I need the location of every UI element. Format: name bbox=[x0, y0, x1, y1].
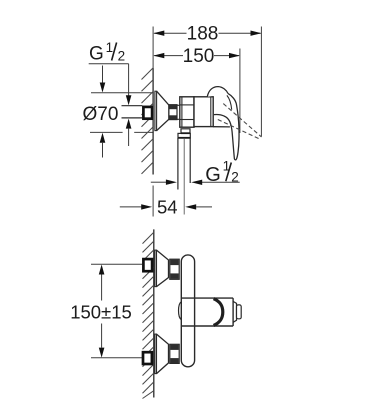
svg-text:Ø70: Ø70 bbox=[83, 104, 119, 125]
54 right arrow bbox=[185, 204, 196, 209]
top escutcheon cone (bottom view) bbox=[157, 250, 169, 287]
Ø70 top extension line bbox=[91, 92, 154, 94]
outlet centre line bbox=[183, 138, 185, 214]
lever handle (top view) bbox=[214, 94, 239, 160]
lever swung position (dashed) lower bbox=[218, 120, 259, 139]
svg-text:2: 2 bbox=[118, 48, 126, 63]
top wall union square (bottom view) bbox=[143, 259, 152, 271]
escutcheon rim (top view) bbox=[155, 91, 157, 130]
cartridge dome bbox=[207, 87, 228, 97]
Ø70 lower arrow (up) bbox=[100, 133, 106, 143]
mixer body main block (top view) bbox=[194, 97, 213, 127]
extension line right of 188 bbox=[260, 27, 262, 137]
bottom escutcheon rim (bottom view) bbox=[155, 334, 157, 374]
54 wall extension line bbox=[152, 186, 154, 217]
G1/2 top leader arrow (down) bbox=[128, 64, 130, 96]
mixer body capsule (bottom view) bbox=[181, 255, 194, 367]
dimension Ø70 upper arrow (down) bbox=[102, 66, 104, 84]
handle hub collar (bottom view) bbox=[233, 301, 236, 322]
dimension 150 line bbox=[154, 55, 239, 57]
extension line left (wall, above view) bbox=[152, 27, 154, 69]
dimension 150±15 top extension line bbox=[91, 263, 142, 265]
cartridge boss (bottom view) bbox=[181, 297, 233, 299]
label G 1/2 bottom bbox=[205, 159, 238, 186]
nut-to-body connectors bbox=[177, 104, 180, 106]
wall union square (top view) bbox=[143, 107, 152, 119]
dimension 150 arrowheads bbox=[153, 53, 164, 58]
lever inner edge line bbox=[227, 95, 232, 109]
bottom union nut (bottom view) bbox=[170, 344, 179, 363]
150±15 dimension line + arrows bbox=[99, 265, 105, 275]
outlet pipe lines (top view) bbox=[177, 138, 179, 189]
dimension 150±15 bottom extension line bbox=[91, 357, 142, 359]
mixer body left block (top view) bbox=[180, 97, 194, 127]
left block inlet lines bbox=[180, 104, 194, 106]
bottom escutcheon cone (bottom view) bbox=[157, 334, 169, 374]
capsule left bulge (boss back) bbox=[179, 302, 182, 320]
left block cap line bbox=[181, 97, 183, 127]
union nut (top view) bbox=[169, 105, 177, 120]
body bottom line extension (lever root) bbox=[213, 126, 230, 128]
supply pipe (top view) bbox=[122, 105, 143, 107]
G1/2 top lower arrow (up) bbox=[126, 119, 132, 129]
bottom wall union square (bottom view) bbox=[143, 352, 152, 364]
wall hatching (bottom view) bbox=[143, 232, 154, 398]
wall hatching (top view) bbox=[142, 68, 154, 174]
outlet nut below body bbox=[178, 133, 190, 138]
handle hub knob (bottom view) bbox=[237, 305, 242, 319]
label G 1/2 top bbox=[89, 40, 129, 65]
outlet collar below body bbox=[181, 129, 190, 134]
dimension 54 bbox=[120, 206, 142, 208]
wall line (bottom view) bbox=[153, 229, 155, 397]
cartridge collar line bbox=[210, 97, 212, 127]
lever swung position (dashed) upper bbox=[223, 104, 261, 137]
wall line (top view) bbox=[152, 68, 154, 175]
svg-text:150±15: 150±15 bbox=[70, 301, 132, 322]
Ø70 bottom extension line bbox=[90, 131, 123, 133]
G1/2 bottom leader line bbox=[202, 181, 240, 183]
boss end vertical bbox=[232, 298, 234, 326]
svg-text:1: 1 bbox=[106, 40, 114, 55]
svg-text:54: 54 bbox=[157, 196, 178, 217]
G1/2 bottom right arrow (left pointing) bbox=[191, 180, 202, 185]
extension line right of 150 bbox=[239, 49, 241, 134]
dimension 188 arrowheads bbox=[153, 31, 164, 36]
svg-text:188: 188 bbox=[187, 24, 219, 45]
boss dome arc bbox=[214, 299, 223, 326]
svg-text:150: 150 bbox=[183, 46, 215, 67]
G1/2 bottom left arrow (right pointing) bbox=[151, 181, 167, 183]
svg-text:G: G bbox=[89, 44, 104, 65]
top union nut (bottom view) bbox=[170, 259, 179, 279]
escutcheon cone (top view) bbox=[157, 91, 169, 130]
dimension 188 line bbox=[154, 32, 260, 34]
top escutcheon rim (bottom view) bbox=[155, 250, 157, 287]
